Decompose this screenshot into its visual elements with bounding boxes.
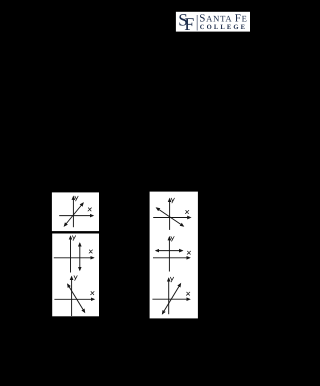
graph C1 line negative shallow — [157, 208, 184, 226]
logo box — [176, 12, 250, 32]
graph C1 label y — [171, 198, 174, 203]
svg-text:COLLEGE: COLLEGE — [200, 24, 247, 31]
graph C3 y-axis — [168, 278, 170, 314]
graph box A — [52, 192, 99, 231]
graph C1 label x — [185, 210, 188, 213]
graph B1 label y — [72, 236, 75, 241]
graph C1 x-axis — [153, 217, 190, 219]
graph C3 x-axis — [152, 298, 189, 300]
graph B2 y-axis — [71, 277, 73, 316]
graph B2 line negative steep — [68, 284, 85, 312]
graph C2 horizontal line — [156, 250, 183, 252]
graph C3 label x — [186, 292, 189, 295]
graph B2 x-axis — [54, 298, 94, 300]
graph C3 line positive steep — [162, 284, 180, 314]
graph A line positive slope — [64, 203, 83, 226]
graph A label x — [88, 208, 91, 211]
graph C1 y-axis — [169, 199, 171, 230]
graph A label y — [75, 196, 78, 201]
svg-text:F: F — [184, 14, 194, 34]
graph B2 label x — [91, 292, 94, 295]
logo separator rule — [196, 15, 198, 31]
graph C2 y-axis — [168, 237, 170, 272]
graph box B — [52, 234, 99, 317]
svg-text:SANTA FE: SANTA FE — [199, 12, 247, 24]
graph B2 label y — [74, 276, 77, 281]
graph B1 x-axis — [54, 257, 94, 259]
graph box C — [150, 192, 198, 319]
graph B1 label x — [89, 250, 92, 253]
graph C2 label x — [187, 251, 190, 254]
graph C2 label y — [171, 237, 174, 242]
graph B1 vertical line — [79, 243, 81, 270]
graph B1 y-axis — [70, 236, 72, 272]
graph C2 x-axis — [153, 257, 190, 259]
graph A x-axis — [59, 215, 93, 217]
graph A y-axis — [72, 197, 74, 228]
graph C3 label y — [170, 277, 173, 282]
